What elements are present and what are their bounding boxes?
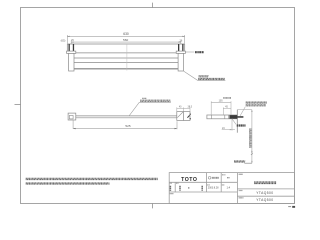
- top view small dims: [177, 107, 190, 111]
- pipe bottom edge: [76, 117, 177, 119]
- floor label: [234, 161, 245, 162]
- side dim A label above: [223, 97, 231, 99]
- cell label row2 b: [176, 182, 179, 184]
- side bar profile outline: [207, 115, 237, 119]
- top view left cap inner: [69, 115, 73, 119]
- top view left cap outer: [68, 113, 76, 120]
- centerline: [126, 44, 128, 71]
- side dim B: [223, 107, 231, 114]
- rail line 1: [76, 52, 176, 54]
- left bracket column: [69, 53, 74, 71]
- svg-text:525: 525: [125, 124, 130, 128]
- svg-text:YTAQ500: YTAQ500: [256, 191, 273, 195]
- floor dim break tick: [251, 153, 253, 155]
- svg-text:TOTO: TOTO: [181, 177, 197, 183]
- third angle label: [212, 177, 219, 179]
- left bracket plate: [67, 51, 76, 53]
- svg-text:38.5: 38.5: [188, 107, 193, 109]
- pipe label: [140, 100, 170, 101]
- row3 label: [170, 193, 174, 195]
- part number cell label 2: [239, 197, 244, 199]
- screw label (dark): [237, 124, 246, 126]
- leader to fitting label: [185, 51, 194, 53]
- rail line 3: [74, 62, 178, 64]
- border frame: [21, 8, 295, 204]
- right bracket plate: [176, 51, 185, 53]
- svg-text:105: 105: [219, 100, 224, 103]
- note line 2: [26, 183, 110, 184]
- plug label line2: [246, 105, 266, 106]
- wall box arrow top: [190, 113, 191, 115]
- cell label row2 a: [170, 182, 172, 184]
- cell label scale row2: [222, 184, 225, 186]
- title block lines: [169, 173, 294, 204]
- side bracket dark section: [229, 115, 237, 119]
- bracket label line1: [199, 76, 209, 77]
- plug label line1: [246, 102, 267, 103]
- side bar left cap divider: [210, 115, 212, 119]
- note line 1: [26, 178, 158, 179]
- top view right bracket box: [177, 112, 184, 121]
- plug leader: [240, 107, 245, 116]
- floor dim bottom arrow: [251, 161, 252, 163]
- right bracket column: [178, 53, 183, 71]
- svg-text:1:4: 1:4: [226, 186, 230, 190]
- scale cell label: [222, 174, 225, 176]
- svg-text:630: 630: [123, 32, 129, 36]
- wall top connector: [237, 109, 252, 111]
- sheet size mark: [292, 206, 295, 208]
- pipe label small prefix: [142, 97, 146, 99]
- dimension 630: [67, 35, 184, 44]
- dimension 560 arrows: [71, 42, 181, 43]
- top view wall side box: [183, 112, 190, 121]
- pipe leader: [129, 102, 171, 116]
- bracket leader line: [184, 71, 226, 80]
- dim 525 arrows: [73, 128, 177, 129]
- top view right bracket diagonal: [177, 112, 183, 118]
- dimension 630 arrows: [67, 36, 184, 37]
- frame center tick left: [15, 103, 21, 105]
- stamp dot: [188, 187, 189, 188]
- right bracket post 1: [178, 44, 179, 51]
- third angle symbol circle: [208, 177, 211, 180]
- floor dim rotated label: [250, 129, 251, 149]
- wall line: [236, 110, 238, 133]
- pipe top edge: [76, 115, 177, 117]
- stamp char 2: [179, 186, 181, 191]
- floor dim top arrow: [251, 110, 252, 112]
- product title: [254, 182, 276, 183]
- fitting label text: [195, 51, 204, 53]
- floor dim vertical line: [251, 110, 253, 164]
- side dim A: [211, 101, 231, 114]
- sheet mark small: [288, 206, 291, 208]
- bracket label line2: [198, 78, 225, 79]
- screw leader: [232, 119, 236, 125]
- side bar divider 2: [224, 115, 226, 119]
- bar top edge: [67, 43, 184, 45]
- floor line: [244, 162, 252, 164]
- side bar divider 3: [228, 115, 230, 119]
- cell label row1 mid: [207, 184, 210, 186]
- frame center tick top: [151, 3, 153, 8]
- frame center tick bottom: [152, 203, 154, 208]
- left bracket post 2: [73, 44, 74, 51]
- bar right end cap: [184, 44, 186, 51]
- stamp char 3: [201, 186, 203, 191]
- screw into wall: [237, 116, 243, 118]
- side dim D arrow: [230, 129, 232, 130]
- rail line 4: [74, 68, 178, 70]
- stamp char 1: [169, 186, 171, 191]
- svg-text:(65): (65): [61, 39, 66, 43]
- wall box inner diagonal mark: [187, 115, 189, 117]
- rail line 2: [74, 57, 178, 59]
- floor dim break arrow: [251, 150, 252, 152]
- right bracket post 2: [182, 44, 183, 51]
- left bracket post 1: [69, 44, 70, 51]
- bar left end cap: [66, 44, 68, 51]
- side dim D: [222, 119, 235, 131]
- dimension 560: [71, 41, 181, 44]
- svg-text:560: 560: [123, 38, 128, 42]
- part number cell label 1: [239, 190, 243, 192]
- wall box arrow bottom: [190, 118, 191, 120]
- dim 525: [73, 120, 177, 129]
- svg-text:YTAQ500: YTAQ500: [256, 198, 273, 202]
- scale cell mark: [227, 177, 230, 179]
- product name cell label: [239, 173, 243, 175]
- svg-text:2003.8.28: 2003.8.28: [208, 187, 219, 190]
